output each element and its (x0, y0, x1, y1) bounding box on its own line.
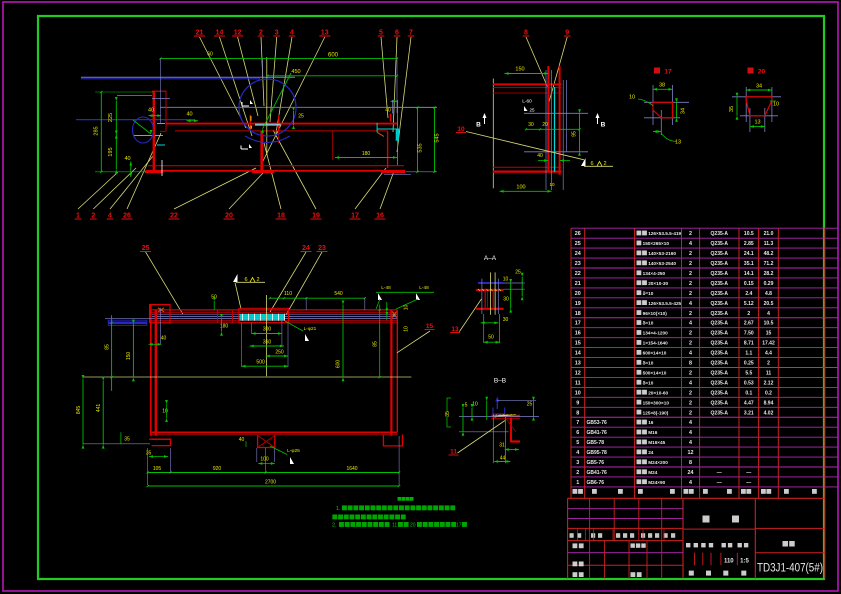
svg-text:9: 9 (565, 30, 569, 37)
svg-text:10: 10 (472, 402, 478, 408)
svg-text:34: 34 (681, 108, 687, 114)
sectionBB green vline right2 (486, 401, 488, 420)
view2 bottom red flange lines (493, 166, 562, 168)
svg-text:Q235-A: Q235-A (711, 311, 729, 317)
svg-text:285: 285 (94, 126, 100, 135)
svg-text:Q235-A: Q235-A (711, 361, 729, 367)
svg-text:8: 8 (689, 460, 692, 466)
view1 center column stub (249, 115, 251, 131)
svg-text:126×53.5.5-425: 126×53.5.5-425 (648, 301, 681, 306)
svg-text:10: 10 (503, 277, 509, 283)
titleblock label gongyi (573, 572, 578, 577)
svg-text:44: 44 (500, 456, 506, 462)
view2 cyan bolt line (554, 87, 556, 172)
sectionBB red web (510, 418, 512, 443)
titleblock label shejI (573, 543, 578, 548)
frame dim 600 vertical (342, 305, 344, 378)
svg-text:L-48: L-48 (419, 285, 429, 291)
sectionAA slate extension right (504, 282, 525, 284)
svg-text:95: 95 (572, 131, 578, 137)
svg-text:7.50: 7.50 (744, 331, 754, 337)
svg-text:7: 7 (576, 420, 579, 426)
detail17 dim 13 (653, 131, 661, 133)
svg-text:17: 17 (575, 321, 581, 327)
svg-text:30: 30 (528, 122, 534, 128)
svg-text:2: 2 (689, 261, 692, 267)
svg-text:30: 30 (503, 317, 509, 323)
svg-text:4: 4 (689, 351, 692, 357)
svg-text:1.: 1. (336, 506, 341, 512)
svg-text:GB53-76: GB53-76 (587, 420, 608, 426)
svg-text:2: 2 (689, 341, 692, 347)
svg-text:2: 2 (689, 251, 692, 257)
svg-text:134×4-250: 134×4-250 (643, 271, 666, 276)
svg-text:1: 1 (76, 213, 80, 220)
sectionAA red bottom flange (476, 308, 503, 310)
svg-text:21: 21 (196, 30, 204, 37)
svg-text:21: 21 (575, 281, 581, 287)
svg-text:20.5: 20.5 (764, 301, 774, 307)
view1 green arrow left joint (133, 120, 151, 134)
svg-text:920: 920 (213, 466, 222, 472)
svg-text:18: 18 (575, 311, 581, 317)
titleblock tiny header strip texts (570, 533, 574, 538)
svg-text:22: 22 (575, 271, 581, 277)
view1 right end orange diagonal (377, 132, 384, 136)
svg-text:13: 13 (675, 140, 681, 146)
svg-text:4: 4 (689, 430, 692, 436)
frame cyan plate strip (240, 314, 285, 321)
view2 balloon 9 (549, 37, 567, 102)
view1 weld mark white a (242, 102, 249, 106)
sectionBB yellow hatch (493, 415, 495, 417)
svg-text:2.: 2. (332, 523, 337, 529)
svg-text:30: 30 (503, 297, 509, 303)
svg-text:2: 2 (689, 311, 692, 317)
titleblock revision row lines magenta (568, 508, 683, 510)
sectionAA slate verticals (481, 279, 483, 314)
view1 slate vline below dim600 (262, 59, 264, 78)
svg-text:225: 225 (108, 113, 114, 122)
svg-text:L-φ21: L-φ21 (304, 326, 317, 332)
view2 top red flange lines (493, 83, 562, 85)
svg-text:11.3: 11.3 (764, 241, 774, 247)
svg-text:4: 4 (689, 480, 692, 486)
svg-text:2: 2 (689, 231, 692, 237)
svg-text:40: 40 (186, 112, 192, 118)
sectionAA blue top bar (478, 282, 504, 284)
view1 beam second flange line (175, 130, 388, 132)
frame L-48 green hline (376, 291, 434, 293)
svg-text:Q235-A: Q235-A (711, 231, 729, 237)
view1 small blue arc under joint (245, 136, 290, 143)
svg-text:40: 40 (161, 336, 167, 342)
frame left baseline (83, 443, 150, 445)
frame left column slate vline (159, 308, 161, 344)
svg-text:48.2: 48.2 (764, 251, 774, 257)
svg-text:85: 85 (373, 341, 379, 347)
svg-text:60: 60 (207, 52, 213, 58)
svg-text:85: 85 (104, 344, 110, 350)
titleblock outer verticals (567, 498, 569, 578)
sectionBB red diagonal (506, 418, 516, 432)
svg-text:100: 100 (260, 457, 269, 463)
view2 slate horizontal upper (524, 112, 588, 114)
svg-text:17: 17 (351, 213, 359, 220)
sectionAA dim 50 bottom (484, 341, 500, 343)
sectionAA red webs (484, 291, 486, 308)
sectionAA dim 30 mid (481, 322, 499, 324)
svg-text:71.2: 71.2 (764, 261, 774, 267)
svg-text:180: 180 (362, 151, 371, 157)
svg-text:5: 5 (379, 30, 383, 37)
svg-text:0.29: 0.29 (764, 281, 774, 287)
svg-text:10: 10 (575, 390, 581, 396)
svg-text:40: 40 (537, 153, 543, 159)
frame red verticals near plate (217, 310, 219, 323)
BOM table vertical grid lines (570, 228, 572, 498)
view1 center stub cyan cap (255, 123, 281, 125)
svg-text:140×53-2160: 140×53-2160 (648, 251, 676, 256)
svg-text:19: 19 (312, 213, 320, 220)
notes title (398, 497, 402, 501)
view1 bottom balloon leaders (78, 172, 118, 209)
view1 right end red verticals (387, 131, 389, 168)
svg-text:2: 2 (747, 311, 750, 317)
svg-text:18: 18 (277, 213, 285, 220)
frame dim 85 vertical (379, 305, 381, 378)
svg-text:8: 8 (689, 361, 692, 367)
svg-text:2: 2 (689, 271, 692, 277)
frame bottom extension lines (147, 448, 149, 485)
svg-text:12: 12 (575, 370, 581, 376)
svg-text:25: 25 (529, 108, 535, 113)
svg-text:14: 14 (216, 30, 224, 37)
svg-text:31: 31 (499, 443, 505, 449)
svg-text:—: — (746, 470, 751, 476)
svg-text:δ=10: δ=10 (643, 380, 654, 385)
sectionAA red top flange (476, 289, 503, 291)
notes line 2 (332, 515, 337, 520)
svg-text:4.02: 4.02 (764, 410, 774, 416)
frame left dim 85 (111, 315, 113, 391)
svg-text:Q235-A: Q235-A (711, 261, 729, 267)
frame inner extension slate lines (241, 323, 243, 367)
svg-text:2: 2 (603, 161, 606, 167)
svg-text:B–B: B–B (494, 378, 506, 385)
svg-text:21.0: 21.0 (764, 231, 774, 237)
svg-text:0.2: 0.2 (765, 390, 772, 396)
svg-text:Q235-A: Q235-A (711, 390, 729, 396)
svg-text:—: — (717, 470, 722, 476)
titleblock revision strip verticals (577, 528, 579, 540)
view1 beam bottom flange lines (148, 165, 404, 167)
svg-text:126×53.5.5-419: 126×53.5.5-419 (648, 231, 681, 236)
svg-text:13: 13 (321, 30, 329, 37)
svg-text:134×4-1200: 134×4-1200 (643, 331, 669, 336)
view1 dim 180 inner (335, 157, 397, 159)
svg-text:4: 4 (576, 450, 579, 456)
svg-text:25: 25 (515, 270, 521, 276)
svg-text:500: 500 (256, 360, 265, 366)
svg-text:19: 19 (575, 301, 581, 307)
frame left dim 845 (82, 379, 84, 445)
frame bottom rail (152, 431, 398, 433)
svg-text:Q235-A: Q235-A (711, 301, 729, 307)
svg-text:6: 6 (576, 430, 579, 436)
svg-text:34: 34 (756, 84, 762, 90)
view2 balloon 8 (526, 37, 548, 88)
svg-text:10.5: 10.5 (764, 321, 774, 327)
svg-text:L-φ25: L-φ25 (287, 448, 300, 454)
view1 dim 600 top (161, 58, 398, 60)
svg-text:28.2: 28.2 (764, 271, 774, 277)
svg-text:2700: 2700 (265, 480, 276, 486)
svg-text:600×14×10: 600×14×10 (643, 351, 667, 356)
svg-text:11: 11 (450, 449, 457, 456)
frame balloon 25 (146, 252, 183, 314)
frame left foot (152, 439, 171, 445)
view1 blue mid-left line (76, 119, 195, 121)
view2 dim 100 bottom (500, 190, 552, 192)
svg-text:A–A: A–A (484, 255, 497, 262)
svg-text:110: 110 (284, 291, 292, 297)
svg-text:4: 4 (689, 440, 692, 446)
view1 green diagonal to circle (263, 73, 291, 129)
svg-text:13: 13 (575, 361, 581, 367)
BOM header row texts (573, 489, 578, 494)
view2 red column verticals (547, 66, 549, 172)
view1 center web (260, 131, 263, 172)
frame left dim 150 (132, 324, 134, 378)
view1 dim 545 right (434, 108, 436, 172)
svg-text:25: 25 (527, 402, 533, 408)
view1 leader 26 horizontal segment (134, 135, 163, 137)
svg-text:35: 35 (146, 451, 152, 457)
svg-text:10: 10 (404, 326, 410, 332)
detail20 dim 13 (750, 126, 765, 128)
frame cap orange hatch (158, 308, 164, 312)
sectionBB right dim 25 (533, 401, 535, 417)
svg-text:2: 2 (689, 390, 692, 396)
view2 dim arrows mid (538, 160, 548, 162)
svg-text:600: 600 (328, 53, 339, 59)
svg-text:10: 10 (773, 102, 779, 108)
svg-text:150: 150 (515, 67, 524, 73)
svg-text:450: 450 (291, 69, 300, 75)
svg-text:3.21: 3.21 (744, 410, 754, 416)
svg-text:—: — (717, 480, 722, 486)
svg-text:δ=10: δ=10 (643, 361, 654, 366)
svg-text:M16: M16 (648, 430, 658, 435)
svg-text:25: 25 (298, 114, 304, 120)
view1 right end cyan plate (396, 129, 399, 141)
svg-text:40: 40 (148, 108, 154, 114)
view1 left column red (153, 91, 155, 172)
svg-text:10: 10 (162, 409, 168, 415)
svg-text:15: 15 (766, 331, 772, 337)
view1 green dim 25 right of stub (293, 111, 295, 125)
svg-text:GB95-78: GB95-78 (587, 450, 608, 456)
svg-text:2: 2 (767, 361, 770, 367)
view1 right foot (381, 171, 405, 174)
frame slate line left (105, 317, 152, 319)
svg-text:0.15: 0.15 (744, 281, 754, 287)
svg-text:5.5: 5.5 (745, 370, 752, 376)
svg-text:Q235-A: Q235-A (711, 351, 729, 357)
view2 weld symbol 6-2 (581, 158, 586, 166)
svg-text:26: 26 (575, 231, 581, 237)
frame balloon 24 (270, 252, 306, 312)
svg-text:14: 14 (575, 351, 581, 357)
frame top rail slate lines (152, 313, 397, 315)
detail20 slate grid (732, 96, 781, 98)
svg-text:500×14×10: 500×14×10 (643, 370, 667, 375)
view1 top balloon leaders (200, 37, 247, 128)
svg-text:—: — (746, 480, 751, 486)
svg-text:6: 6 (395, 30, 399, 37)
detail17 dim 34 (676, 102, 678, 118)
frame blue bar left (108, 321, 147, 324)
svg-text:GB5-76: GB5-76 (587, 460, 605, 466)
svg-text:M24×200: M24×200 (648, 460, 668, 465)
sectionBB left green dims (462, 408, 464, 432)
svg-text:96×10(×10): 96×10(×10) (643, 311, 668, 316)
titleblock stage mark labels (686, 543, 690, 547)
svg-text:23: 23 (575, 261, 581, 267)
svg-text:4.4: 4.4 (765, 351, 772, 357)
svg-text:5: 5 (465, 403, 468, 409)
svg-text:3: 3 (275, 30, 279, 37)
view1 weld mark white b (241, 146, 248, 150)
svg-text:Q235-A: Q235-A (711, 271, 729, 277)
svg-text:4: 4 (689, 420, 692, 426)
frame left column cap box (150, 305, 170, 323)
svg-text:535: 535 (418, 143, 424, 152)
svg-text:360: 360 (263, 340, 272, 346)
titleblock bottom-left verticals (589, 541, 591, 579)
frame horizontal centerline (83, 376, 411, 378)
svg-text:35: 35 (445, 411, 451, 417)
svg-text:40: 40 (124, 156, 130, 162)
svg-text:20: 20 (758, 69, 766, 76)
svg-text:8.71: 8.71 (744, 341, 754, 347)
svg-text:δ=10: δ=10 (643, 321, 654, 326)
view1 right end plate red vline far (332, 131, 334, 160)
view1 dim 535 right (417, 108, 419, 172)
svg-text:20×10-30: 20×10-30 (648, 281, 668, 286)
sectionBB left bracket 35 (447, 398, 451, 427)
svg-text:M24×90: M24×90 (648, 480, 665, 485)
svg-text:545: 545 (435, 133, 441, 142)
svg-text:GB41-76: GB41-76 (587, 470, 608, 476)
svg-text:40: 40 (385, 108, 391, 114)
view2 slate verticals (545, 70, 547, 190)
view1 left small slate bracket (117, 95, 152, 97)
svg-text:11: 11 (575, 380, 581, 386)
svg-text:25: 25 (575, 241, 581, 247)
svg-text:12: 12 (688, 450, 694, 456)
svg-text:6: 6 (590, 161, 593, 167)
svg-text:11: 11 (766, 370, 772, 376)
svg-text:Q235-A: Q235-A (711, 241, 729, 247)
svg-text:10: 10 (549, 182, 555, 187)
BOM table horizontal grid lines (571, 227, 838, 229)
svg-text:38: 38 (659, 83, 665, 89)
view1 center foot (252, 171, 274, 174)
view1 left dim 285 (100, 92, 102, 172)
frame weld symbol top (233, 274, 238, 282)
view1 blue ellipse left column (133, 117, 154, 143)
view1 right end dim 40 line (391, 100, 398, 102)
view2 dim 150 (505, 73, 549, 75)
svg-text:35.1: 35.1 (744, 261, 754, 267)
svg-text:12: 12 (234, 30, 242, 37)
svg-text:8.94: 8.94 (764, 400, 774, 406)
svg-text:23: 23 (318, 245, 326, 252)
svg-text:195: 195 (108, 147, 114, 156)
svg-text:13: 13 (451, 326, 459, 333)
svg-text:20×10-60: 20×10-60 (648, 390, 668, 395)
view1 slate centerline (160, 106, 437, 108)
titleblock goujian text (703, 516, 710, 523)
titleblock sheet count row (689, 571, 694, 576)
svg-text:20: 20 (410, 523, 416, 529)
frame left dim 441 (102, 381, 104, 445)
svg-text:GB41-76: GB41-76 (587, 430, 608, 436)
view1 left foot (145, 171, 163, 174)
svg-text:24: 24 (688, 470, 694, 476)
svg-text:2: 2 (576, 470, 579, 476)
sectionAA right green dims (510, 283, 512, 309)
svg-text:150: 150 (126, 352, 132, 361)
svg-text:16: 16 (376, 213, 384, 220)
svg-text:Q235-A: Q235-A (711, 331, 729, 337)
svg-text:1.1: 1.1 (745, 351, 752, 357)
svg-text:2.67: 2.67 (744, 321, 754, 327)
view1 cyan dashes left column (157, 123, 165, 125)
svg-text:M24: M24 (648, 470, 658, 475)
svg-text:16: 16 (575, 331, 581, 337)
titleblock label shenhe (573, 562, 578, 567)
view1 yellow centerline joint (266, 57, 268, 155)
svg-text:B: B (476, 122, 481, 129)
svg-text:4: 4 (689, 321, 692, 327)
svg-text:24: 24 (302, 245, 310, 252)
svg-text:0.1: 0.1 (745, 390, 752, 396)
svg-text:Q235-A: Q235-A (711, 321, 729, 327)
svg-text:24.1: 24.1 (744, 251, 754, 257)
svg-text:0.53: 0.53 (744, 380, 754, 386)
svg-text:Q235-A: Q235-A (711, 291, 729, 297)
sectionAA yellow bolt lines (489, 272, 491, 314)
view2 slate horizontal lower (524, 151, 588, 153)
frame yellow centerline vertical (266, 295, 268, 376)
svg-text:10.5: 10.5 (744, 231, 754, 237)
svg-text:10: 10 (629, 95, 635, 101)
svg-text:Q235-A: Q235-A (711, 370, 729, 376)
svg-text:TD3J1-407(5#): TD3J1-407(5#) (757, 563, 823, 575)
svg-text:250: 250 (275, 350, 284, 356)
detail17 red outline (653, 102, 673, 118)
svg-text:2: 2 (689, 410, 692, 416)
detail17 slate grid (644, 101, 689, 103)
detail20 red outline (746, 97, 772, 116)
svg-text:4.47: 4.47 (744, 400, 754, 406)
svg-text:1×154-1640: 1×154-1640 (643, 341, 669, 346)
svg-text:2: 2 (689, 370, 692, 376)
frame left column (150, 305, 152, 436)
